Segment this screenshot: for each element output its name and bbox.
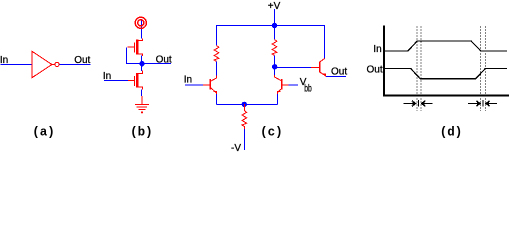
transistor Q1 base lead [203, 84, 209, 86]
transistor Q2 NMOS driver: drain lead [137, 71, 143, 74]
wire Q5 emitter to Out [326, 76, 346, 78]
ground dot [141, 111, 143, 113]
wire In to inverter input [1, 64, 32, 66]
svg-text:(a): (a) [32, 125, 55, 139]
resistor R2 [272, 40, 277, 56]
resistor R1 [214, 46, 219, 62]
wire NMOS source to ground [141, 90, 143, 97]
transistor Q1 emitter diagonal with arrow [211, 88, 217, 93]
transistor Q2 source lead [137, 87, 143, 90]
wire Q1 emitter down [216, 94, 218, 105]
waveform In [385, 41, 507, 51]
wire In to NMOS gate [104, 80, 128, 82]
ground lead [141, 96, 143, 105]
transistor Q2 gate bar [134, 76, 136, 86]
wire PMOS source to output node [141, 56, 143, 63]
transistor Q5 base bar [319, 62, 321, 73]
transistor Q2 gate lead [128, 80, 135, 82]
inverter U1 triangle [32, 51, 52, 78]
wire bubble to Out [59, 64, 90, 66]
svg-text:In: In [184, 75, 192, 86]
transistor Q5 base lead [311, 67, 319, 69]
transistor Q4 base bar [281, 79, 283, 90]
transistor Q1 channel bar [136, 40, 139, 55]
transistor Q1 PMOS load: drain lead [137, 39, 143, 41]
wire R2 to collector node [274, 56, 276, 67]
transistor Q2 channel bar [136, 73, 139, 88]
wire V+ stub through supply symbol [141, 19, 143, 39]
transistor Q1 gate lead [128, 46, 135, 48]
wire top rail [216, 25, 325, 27]
transistor Q4 emitter diagonal with arrow [278, 89, 281, 92]
svg-text:Out: Out [367, 64, 383, 75]
transistor Q1 gate bar [133, 42, 135, 52]
wire R3 to -V [243, 129, 245, 150]
svg-text:Out: Out [331, 67, 347, 78]
svg-text:(b): (b) [130, 125, 153, 139]
wire output node to NMOS drain [141, 64, 143, 72]
dotted line t1b [420, 27, 422, 112]
ground bar 1 [135, 104, 149, 106]
wire node to Q5 base [275, 67, 312, 69]
wire rail down to R1 [216, 26, 218, 46]
dotted line t1a [416, 27, 418, 112]
node common emitter junction dot [242, 102, 247, 107]
delay marker 2 tick [482, 100, 484, 107]
dotted line t2b [484, 27, 486, 112]
wire common emitter rail [217, 103, 278, 105]
axis [384, 26, 509, 96]
svg-text:Out: Out [156, 55, 172, 66]
wire PMOS gate to output node [127, 48, 142, 64]
node output junction dot [139, 61, 144, 66]
transistor Q1 source lead [137, 54, 143, 56]
wire node down to Q4 collector [274, 67, 276, 76]
delay marker 1 right arrow [422, 101, 426, 107]
svg-text:bb: bb [304, 82, 312, 94]
svg-text:Out: Out [74, 55, 90, 66]
dotted line t2a [480, 27, 482, 112]
transistor Q1 base bar [209, 79, 210, 90]
wire Vbb [288, 84, 298, 86]
delay marker 1 left arrow [404, 103, 414, 105]
transistor Q5 collector diagonal [320, 58, 325, 62]
transistor Q1 collector diagonal [211, 75, 217, 81]
svg-text:(c): (c) [260, 125, 283, 139]
wire output node to Out [142, 63, 171, 65]
transistor Q5 emitter diagonal with arrow [320, 72, 325, 75]
resistor R3 lead [243, 104, 245, 111]
inverter U1 output bubble [52, 64, 55, 66]
power supply V+ symbol (double circle) [135, 17, 146, 28]
node collector junction dot [272, 64, 277, 69]
wire In to Q1 base [185, 84, 203, 86]
svg-text:-V: -V [231, 143, 241, 152]
wire Q4 emitter down [276, 94, 278, 105]
wire rail down to Q5 collector [324, 26, 326, 59]
ground bar 2 [137, 106, 147, 108]
svg-text:In: In [373, 44, 381, 55]
ground bar 3 [139, 109, 146, 111]
delay marker 2 left arrow [468, 103, 478, 105]
delay marker 2 right arrow [486, 101, 490, 107]
delay marker 1 tick [418, 100, 420, 107]
wire rail junction down to R2 [274, 26, 276, 40]
transistor Q4 collector diagonal [275, 75, 282, 81]
transistor Q4 base lead [282, 84, 288, 86]
resistor R3 [242, 111, 247, 130]
node rail junction dot [272, 23, 277, 28]
svg-text:(d): (d) [440, 125, 463, 139]
wire +V stub [274, 9, 276, 26]
wire R1 to Q1 collector [216, 62, 218, 76]
waveform Out [385, 69, 507, 79]
